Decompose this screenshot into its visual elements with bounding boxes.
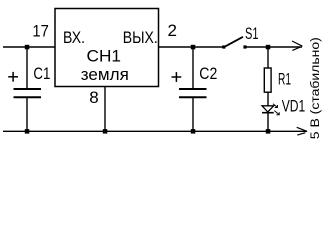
svg-text:ВЫХ.: ВЫХ. <box>123 28 158 47</box>
resistor R1 <box>264 68 271 92</box>
wire: C1 top lead <box>26 47 28 89</box>
wire: bottom ground rail <box>3 130 307 132</box>
capacitor C1 plates <box>14 89 42 97</box>
wire: output lead from box to switch <box>159 46 225 48</box>
node: junction input/C1 <box>25 45 30 50</box>
wire: switch to output arrow <box>245 46 302 48</box>
node: junction R1 top <box>266 45 271 50</box>
node: junction pin8/rail <box>103 129 108 134</box>
svg-text:S1: S1 <box>245 24 259 43</box>
node: junction C1 bottom <box>25 129 30 134</box>
wire: R1 to VD1 lead <box>267 92 269 106</box>
node: junction VD1 bottom <box>266 129 271 134</box>
wire: C2 top lead <box>192 47 194 89</box>
plus sign of C2 <box>172 72 182 82</box>
svg-text:5 В (стабильно): 5 В (стабильно) <box>308 37 322 139</box>
node: junction output/C2 <box>191 45 196 50</box>
plus sign of C1 <box>8 72 18 82</box>
svg-text:VD1: VD1 <box>282 97 306 116</box>
node: junction C2 bottom <box>191 129 196 134</box>
svg-text:2: 2 <box>168 21 177 40</box>
output arrow bottom rail <box>297 127 308 135</box>
wire: R1 top lead <box>267 47 269 68</box>
svg-text:17: 17 <box>32 22 49 41</box>
wire: VD1 bottom lead <box>267 113 269 132</box>
output arrow top rail <box>292 41 302 50</box>
svg-text:8: 8 <box>89 88 98 107</box>
LED emission arrows <box>273 104 279 115</box>
svg-text:земля: земля <box>81 65 129 84</box>
svg-text:C2: C2 <box>199 64 217 83</box>
LED VD1 <box>262 106 274 113</box>
switch S1 <box>222 37 246 49</box>
wire: C1 bottom lead <box>26 97 28 131</box>
svg-text:C1: C1 <box>33 64 50 83</box>
wire: C2 bottom lead <box>192 97 194 131</box>
wire: pin 8 ground lead <box>104 87 106 132</box>
wire: input lead into box <box>3 46 55 48</box>
svg-text:ВХ.: ВХ. <box>63 28 85 47</box>
regulator box U1 (СН1) <box>55 9 159 87</box>
capacitor C2 plates <box>179 89 207 97</box>
svg-text:R1: R1 <box>278 70 291 89</box>
svg-text:СН1: СН1 <box>87 47 122 66</box>
